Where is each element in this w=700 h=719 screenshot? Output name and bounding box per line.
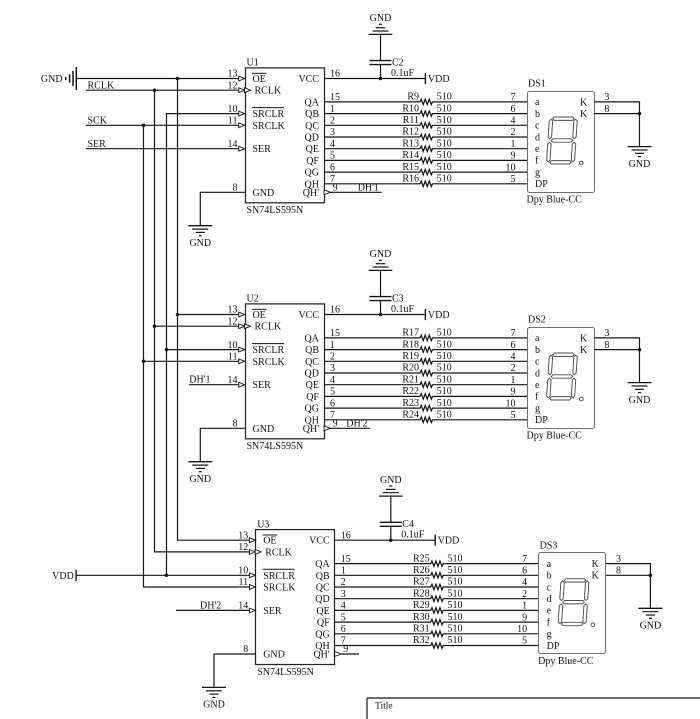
capacitor C3: [370, 294, 415, 316]
svg-text:U2: U2: [247, 294, 259, 305]
svg-text:SER: SER: [253, 380, 272, 391]
svg-text:GND: GND: [189, 474, 211, 485]
wire QA to resistor: [324, 337, 420, 339]
svg-text:R17: R17: [402, 328, 419, 339]
svg-text:QC: QC: [316, 583, 330, 594]
wire bus SRCLR vertical: [166, 113, 168, 576]
svg-text:e: e: [535, 380, 540, 391]
wire GND pin8 down: [213, 653, 215, 687]
wire QH' stub: [331, 427, 370, 429]
wire QH to resistor: [324, 419, 420, 421]
svg-text:SRCLR: SRCLR: [253, 109, 285, 120]
svg-text:510: 510: [437, 386, 452, 397]
svg-text:QD: QD: [315, 594, 329, 605]
svg-text:Dpy Blue-CC: Dpy Blue-CC: [527, 194, 583, 205]
svg-text:DP: DP: [535, 415, 548, 426]
wire K pin8: [594, 113, 639, 115]
U1 input arrow pin 10: [239, 111, 245, 116]
U1 input arrow pin 14: [239, 146, 245, 151]
svg-text:2: 2: [522, 589, 527, 600]
svg-text:DP: DP: [535, 179, 548, 190]
wire QH' stub: [341, 653, 359, 655]
junction U2 RCLK: [153, 324, 157, 328]
svg-text:R19: R19: [402, 351, 419, 362]
wire resistor to display pin 6: [432, 113, 527, 115]
svg-text:SRCLK: SRCLK: [263, 583, 296, 594]
svg-text:510: 510: [448, 612, 463, 623]
svg-text:5: 5: [511, 174, 516, 185]
junction U2 OE: [176, 313, 180, 317]
U2 pin name OE (active low): [252, 309, 267, 321]
svg-text:DH'1: DH'1: [189, 375, 210, 386]
wire K pin3: [606, 563, 650, 565]
svg-text:g: g: [535, 403, 540, 414]
svg-text:K: K: [580, 97, 588, 108]
svg-text:R31: R31: [413, 624, 430, 635]
wire resistor to display pin 1: [443, 609, 539, 611]
svg-text:QE: QE: [306, 380, 319, 391]
svg-text:g: g: [547, 629, 552, 640]
svg-text:R32: R32: [413, 635, 430, 646]
svg-text:R12: R12: [402, 127, 419, 138]
resistor R19: [402, 351, 451, 364]
wire RCLK to U1 pin12: [86, 89, 239, 91]
wire resistor to display pin 7: [443, 563, 539, 565]
wire QF to resistor: [335, 621, 431, 623]
U3 input arrow pin 12: [249, 550, 255, 555]
svg-text:SRCLR: SRCLR: [263, 571, 295, 582]
svg-text:R13: R13: [402, 138, 419, 149]
svg-text:VDD: VDD: [438, 536, 460, 547]
wire K pin8: [606, 574, 650, 576]
wire QE to resistor: [324, 384, 420, 386]
wire bus to U3 SRCLK: [144, 586, 250, 588]
wire K pin8: [594, 349, 639, 351]
svg-text:GND: GND: [370, 13, 392, 24]
wire resistor to display pin 4: [443, 586, 539, 588]
svg-text:R9: R9: [407, 92, 419, 103]
resistor R9: [407, 92, 451, 105]
wire C3 to VCC net: [380, 301, 382, 315]
wire resistor to display pin 7: [432, 101, 527, 103]
wire DH'2 to U3 pin14: [176, 609, 250, 611]
display DS1 Dpy Blue-CC body: [527, 79, 595, 206]
wire K pin3 down: [649, 563, 651, 575]
svg-text:GND: GND: [189, 238, 211, 249]
svg-text:a: a: [535, 97, 540, 108]
wire resistor to display pin 5: [432, 419, 527, 421]
wire resistor to display pin 10: [443, 633, 539, 635]
svg-text:2: 2: [511, 363, 516, 374]
svg-text:7: 7: [511, 92, 516, 103]
resistor R20: [402, 363, 451, 376]
IC U3 SN74LS595N body: [256, 519, 335, 677]
svg-text:R16: R16: [402, 174, 419, 185]
resistor R27: [413, 577, 462, 590]
svg-text:K: K: [592, 571, 600, 582]
IC U1 SN74LS595N body: [246, 58, 325, 216]
wire resistor to display pin 4: [432, 360, 527, 362]
DS1 seven-segment digit: [546, 117, 577, 164]
svg-text:U1: U1: [247, 58, 259, 69]
svg-text:VCC: VCC: [309, 536, 330, 547]
svg-text:QF: QF: [306, 392, 319, 403]
wire bus RCLK vertical: [154, 90, 156, 553]
wire GND pin8: [200, 427, 245, 429]
wire QH' stub: [331, 191, 382, 193]
svg-text:SER: SER: [263, 606, 282, 617]
wire resistor to display pin 1: [432, 384, 527, 386]
wire C2 to VCC net: [380, 65, 382, 79]
junction K net: [638, 112, 642, 116]
wire QB to resistor: [335, 574, 431, 576]
junction U2 SRCLR: [165, 348, 169, 352]
svg-text:510: 510: [437, 138, 452, 149]
svg-text:d: d: [535, 132, 540, 143]
DS3 seven-segment digit: [558, 579, 589, 626]
U1 pin name OE (active low): [252, 73, 267, 85]
wire resistor to display pin 4: [432, 124, 527, 126]
svg-text:510: 510: [437, 339, 452, 350]
svg-text:510: 510: [448, 588, 463, 599]
DS2 decimal point: [580, 397, 584, 401]
ground below U3: [202, 687, 226, 710]
U1 input arrow pin 12: [239, 88, 245, 93]
svg-text:K: K: [580, 345, 588, 356]
svg-text:510: 510: [437, 174, 452, 185]
wire QC to resistor: [335, 586, 431, 588]
svg-text:QC: QC: [305, 121, 319, 132]
wire resistor to display pin 2: [432, 372, 527, 374]
junction VDD/SRCLR bus: [165, 574, 169, 578]
svg-text:C2: C2: [392, 58, 404, 69]
junction K net: [649, 574, 653, 578]
svg-text:DS2: DS2: [528, 315, 546, 326]
svg-text:R20: R20: [402, 363, 419, 374]
svg-text:510: 510: [448, 577, 463, 588]
svg-text:SRCLK: SRCLK: [253, 121, 286, 132]
svg-text:510: 510: [448, 600, 463, 611]
svg-text:510: 510: [448, 624, 463, 635]
svg-text:510: 510: [448, 565, 463, 576]
svg-text:R21: R21: [402, 374, 419, 385]
wire QD to resistor: [324, 372, 420, 374]
capacitor C2: [370, 58, 415, 80]
wire GND pin8 down: [199, 192, 201, 226]
svg-text:0.1uF: 0.1uF: [391, 304, 415, 315]
svg-text:10: 10: [517, 624, 527, 635]
resistor R25: [413, 553, 462, 566]
resistor R14: [402, 150, 451, 163]
svg-text:R23: R23: [402, 398, 419, 409]
svg-text:10: 10: [506, 162, 516, 173]
wire VDD to U3 SRCLR: [76, 574, 250, 576]
svg-text:5: 5: [522, 636, 527, 647]
svg-text:OE: OE: [253, 310, 266, 321]
svg-text:510: 510: [437, 328, 452, 339]
wire QF to resistor: [324, 159, 420, 161]
power port VDD: [425, 73, 449, 85]
wire resistor to display pin 6: [432, 349, 527, 351]
svg-text:QH': QH': [303, 424, 319, 435]
ground above C4: [379, 475, 403, 496]
svg-text:g: g: [535, 167, 540, 178]
U2 output arrow pin 9 QH': [324, 426, 331, 431]
svg-text:510: 510: [437, 398, 452, 409]
U3 clock arrow pin 12: [255, 550, 261, 555]
wire GND port to U1 OE: [76, 78, 239, 80]
svg-text:b: b: [535, 109, 540, 120]
power port VDD (left): [52, 570, 76, 582]
svg-text:SN74LS595N: SN74LS595N: [247, 441, 304, 452]
resistor R30: [413, 612, 462, 625]
svg-text:QA: QA: [305, 333, 320, 344]
svg-text:QE: QE: [306, 144, 319, 155]
resistor R21: [402, 374, 451, 387]
svg-text:510: 510: [437, 162, 452, 173]
resistor R18: [402, 339, 451, 352]
svg-text:GND: GND: [640, 621, 662, 632]
svg-text:RCLK: RCLK: [255, 86, 282, 97]
wire bus SCK vertical: [143, 125, 145, 588]
resistor R12: [402, 127, 451, 140]
wire QA to resistor: [335, 563, 431, 565]
svg-text:QD: QD: [305, 133, 319, 144]
svg-text:GND: GND: [629, 159, 651, 170]
svg-text:DH'1: DH'1: [358, 182, 379, 193]
resistor R32: [413, 635, 462, 648]
svg-text:VCC: VCC: [298, 74, 319, 85]
svg-text:4: 4: [511, 116, 516, 127]
U3 input arrow pin 14: [249, 608, 255, 613]
svg-text:R24: R24: [402, 410, 419, 421]
U2 input arrow pin 13: [239, 312, 245, 317]
wire QG to resistor: [324, 171, 420, 173]
U2 input arrow pin 10: [239, 347, 245, 352]
svg-text:6: 6: [511, 104, 516, 115]
wire QB to resistor: [324, 113, 420, 115]
resistor R13: [402, 138, 451, 151]
resistor R11: [403, 115, 452, 128]
svg-text:10: 10: [506, 398, 516, 409]
svg-text:R26: R26: [413, 565, 430, 576]
wire bus OE vertical: [177, 78, 179, 541]
svg-text:GND: GND: [263, 650, 285, 661]
svg-text:VDD: VDD: [428, 310, 450, 321]
svg-text:c: c: [535, 121, 540, 132]
wire DH'1 to U2 pin14: [189, 384, 239, 386]
svg-text:RCLK: RCLK: [255, 322, 282, 333]
svg-text:510: 510: [448, 553, 463, 564]
U3 input arrow pin 13: [249, 538, 255, 543]
wire C3 to GND: [380, 270, 382, 296]
wire VCC pin16: [324, 314, 425, 316]
svg-text:DH'2: DH'2: [346, 418, 367, 429]
title block border: [367, 698, 700, 719]
svg-text:C4: C4: [402, 519, 414, 530]
svg-text:510: 510: [437, 115, 452, 126]
wire resistor to display pin 9: [432, 395, 527, 397]
wire bus to U2 OE: [178, 314, 240, 316]
wire resistor to display pin 1: [432, 148, 527, 150]
U1 input arrow pin 13: [239, 76, 245, 81]
wire QD to resistor: [335, 598, 431, 600]
svg-text:GND: GND: [253, 188, 275, 199]
svg-text:b: b: [535, 345, 540, 356]
svg-text:SN74LS595N: SN74LS595N: [257, 667, 314, 678]
svg-text:R29: R29: [413, 600, 430, 611]
svg-text:QB: QB: [305, 345, 319, 356]
wire QA to resistor: [324, 101, 420, 103]
svg-text:9: 9: [522, 612, 527, 623]
IC U2 SN74LS595N body: [246, 294, 325, 452]
wire bus to U2 SRCLR: [167, 349, 240, 351]
power port VDD: [435, 535, 459, 547]
svg-text:QA: QA: [305, 97, 320, 108]
wire resistor to display pin 10: [432, 171, 527, 173]
wire QH to resistor: [324, 183, 420, 185]
resistor R31: [413, 624, 462, 637]
svg-text:e: e: [547, 606, 552, 617]
junction RCLK bus: [153, 88, 157, 92]
svg-text:C3: C3: [392, 294, 404, 305]
svg-text:R10: R10: [402, 103, 419, 114]
wire resistor to display pin 6: [443, 574, 539, 576]
wire GND pin8: [200, 191, 245, 193]
svg-text:6: 6: [511, 340, 516, 351]
wire K pin3 down: [639, 101, 641, 113]
DS2 seven-segment digit: [546, 353, 577, 400]
display DS2 Dpy Blue-CC body: [527, 315, 595, 442]
svg-text:1: 1: [511, 139, 516, 150]
wire GND pin8: [214, 653, 256, 655]
wire QH to resistor: [335, 645, 431, 647]
capacitor C4: [380, 519, 425, 541]
svg-text:Title: Title: [375, 702, 393, 712]
wire QE to resistor: [335, 609, 431, 611]
junction U2 SRCLK: [142, 360, 146, 364]
svg-text:510: 510: [437, 410, 452, 421]
svg-text:R14: R14: [402, 150, 419, 161]
svg-text:0.1uF: 0.1uF: [401, 530, 425, 541]
power port VDD: [425, 309, 449, 321]
svg-text:6: 6: [522, 566, 527, 577]
U3 input arrow pin 10: [249, 573, 255, 578]
svg-text:QB: QB: [305, 109, 319, 120]
wire resistor to display pin 7: [432, 337, 527, 339]
svg-text:510: 510: [437, 127, 452, 138]
svg-text:DS3: DS3: [540, 540, 558, 551]
svg-text:R11: R11: [403, 115, 419, 126]
svg-text:SN74LS595N: SN74LS595N: [247, 205, 304, 216]
svg-text:DS1: DS1: [528, 79, 546, 90]
svg-text:510: 510: [448, 635, 463, 646]
junction VCC/C2: [379, 77, 383, 81]
wire K net to ground: [649, 575, 651, 608]
svg-text:510: 510: [437, 92, 452, 103]
wire QC to resistor: [324, 360, 420, 362]
wire QB to resistor: [324, 349, 420, 351]
power port GND (top-left): [41, 67, 76, 90]
ground below U1: [188, 226, 212, 249]
svg-text:OE: OE: [263, 536, 276, 547]
U1 pin name SRCLR (active low): [252, 108, 285, 121]
svg-text:a: a: [547, 559, 552, 570]
svg-text:e: e: [535, 144, 540, 155]
svg-text:VDD: VDD: [428, 74, 450, 85]
svg-text:1: 1: [511, 375, 516, 386]
svg-text:QD: QD: [305, 369, 319, 380]
display DS3 Dpy Blue-CC body: [538, 540, 605, 667]
wire QG to resistor: [324, 407, 420, 409]
svg-text:QC: QC: [305, 357, 319, 368]
svg-text:SER: SER: [253, 144, 272, 155]
svg-text:7: 7: [522, 554, 527, 565]
ground right of DS2: [628, 383, 652, 406]
svg-text:R18: R18: [402, 339, 419, 350]
U2 input arrow pin 14: [239, 382, 245, 387]
svg-text:d: d: [535, 368, 540, 379]
wire C2 to GND: [380, 34, 382, 60]
svg-text:K: K: [580, 109, 588, 120]
svg-text:OE: OE: [253, 74, 266, 85]
svg-text:GND: GND: [253, 424, 275, 435]
svg-text:U3: U3: [257, 519, 269, 530]
wire QE to resistor: [324, 148, 420, 150]
DS3 decimal point: [591, 623, 595, 627]
wire resistor to display pin 9: [443, 621, 539, 623]
svg-text:GND: GND: [629, 395, 651, 406]
resistor R26: [413, 565, 462, 578]
svg-text:K: K: [580, 333, 588, 344]
wire resistor to display pin 5: [432, 183, 527, 185]
wire GND pin8 down: [199, 428, 201, 462]
wire K net to ground: [639, 350, 641, 383]
U2 input arrow pin 11: [239, 359, 245, 364]
svg-text:510: 510: [437, 363, 452, 374]
wire QG to resistor: [335, 633, 431, 635]
svg-text:0.1uF: 0.1uF: [391, 68, 415, 79]
svg-text:VCC: VCC: [298, 310, 319, 321]
wire K net to ground: [639, 114, 641, 147]
svg-text:2: 2: [511, 127, 516, 138]
wire bus to U2 RCLK: [155, 325, 240, 327]
svg-text:510: 510: [437, 150, 452, 161]
svg-text:5: 5: [511, 410, 516, 421]
wire QF to resistor: [324, 395, 420, 397]
svg-text:510: 510: [437, 374, 452, 385]
wire K pin3: [594, 101, 639, 103]
svg-text:GND: GND: [41, 74, 63, 85]
wire SCK to U1 pin11: [86, 124, 239, 126]
junction OE bus: [176, 77, 180, 81]
wire K pin3: [594, 337, 639, 339]
svg-text:Dpy Blue-CC: Dpy Blue-CC: [527, 430, 583, 441]
svg-text:SRCLR: SRCLR: [253, 345, 285, 356]
U3 pin name OE (active low): [263, 535, 278, 547]
svg-text:GND: GND: [380, 475, 402, 486]
U1 output arrow pin 9 QH': [324, 190, 331, 195]
svg-text:R28: R28: [413, 588, 430, 599]
U2 pin name SRCLR (active low): [252, 344, 285, 357]
resistor R10: [402, 103, 451, 116]
svg-text:QH': QH': [313, 650, 329, 661]
svg-text:R22: R22: [402, 386, 419, 397]
ground above C2: [369, 13, 393, 34]
svg-text:QH': QH': [303, 188, 319, 199]
resistor R17: [402, 328, 451, 341]
wire resistor to display pin 2: [432, 136, 527, 138]
